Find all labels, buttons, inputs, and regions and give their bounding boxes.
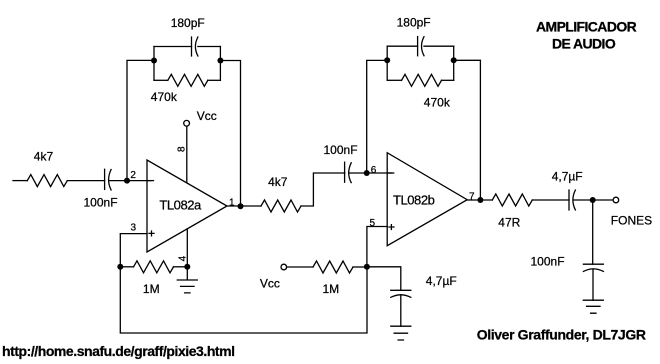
resistor 470k (second feedback) <box>402 74 442 86</box>
wire bypass capacitor to ground <box>400 295 402 326</box>
svg-text:470k: 470k <box>151 90 178 104</box>
node output 2 junction <box>477 197 483 203</box>
wire feedback bottom branch left <box>154 79 168 81</box>
wire capacitor to pin 6 <box>349 172 392 174</box>
node feedback 2 right junction <box>451 57 457 63</box>
capacitor 100nF (output filter) <box>583 264 603 271</box>
svg-text:1M: 1M <box>323 282 340 296</box>
wire 47R to capacitor <box>532 199 569 201</box>
wire pin6 node up to feedback 2 <box>367 60 388 173</box>
wire feedback 2 to output node <box>454 60 481 200</box>
wire feedback 2 top branch <box>387 45 454 47</box>
node pin 2 junction <box>124 178 130 184</box>
svg-text:http://home.snafu.de/graff/pix: http://home.snafu.de/graff/pixie3.html <box>2 343 235 359</box>
ground (bias bypass) <box>391 326 411 340</box>
wire feedback 2 bottom branch right <box>442 79 454 81</box>
svg-text:4,7µF: 4,7µF <box>426 274 457 288</box>
svg-text:7: 7 <box>469 192 475 203</box>
svg-text:DE AUDIO: DE AUDIO <box>552 36 616 52</box>
wire bias node to 1M <box>120 266 133 268</box>
op-amp U1a TL082a <box>147 160 227 252</box>
wire capacitor to pin 2 <box>109 180 151 182</box>
svg-text:47R: 47R <box>498 216 520 230</box>
wire bias loop bottom <box>120 267 367 333</box>
wire Vcc to 1M <box>287 266 313 268</box>
wire feedback top branch <box>154 46 220 48</box>
svg-text:100nF: 100nF <box>84 195 118 209</box>
capacitor 100nF (interstage) <box>345 162 352 182</box>
node FONES junction <box>590 197 596 203</box>
svg-text:6: 6 <box>371 165 377 176</box>
node bias left junction <box>117 264 123 270</box>
svg-text:Vcc: Vcc <box>260 276 280 290</box>
wire output pin 7 <box>467 199 492 201</box>
svg-text:2: 2 <box>130 170 136 181</box>
svg-text:180pF: 180pF <box>171 16 205 30</box>
svg-text:AMPLIFICADOR: AMPLIFICADOR <box>536 19 637 35</box>
node pin 6 junction <box>364 170 370 176</box>
svg-text:TL082a: TL082a <box>159 197 202 212</box>
op-amp U1b TL082b <box>387 153 467 246</box>
svg-text:4: 4 <box>178 255 189 261</box>
plus sign pin 5 <box>389 225 394 230</box>
node feedback left junction <box>151 58 157 64</box>
wire pin 8 <box>186 126 188 183</box>
svg-text:5: 5 <box>370 218 376 229</box>
minus sign pin 2 <box>148 180 154 182</box>
wire capacitor to FONES terminal <box>573 199 613 201</box>
svg-text:8: 8 <box>177 146 188 152</box>
node feedback 2 left junction <box>384 57 390 63</box>
svg-text:FONES: FONES <box>611 214 652 228</box>
resistor 470k (first feedback) <box>168 74 208 86</box>
svg-text:4k7: 4k7 <box>34 150 54 164</box>
wire bias node to bypass capacitor <box>367 267 401 291</box>
resistor 4k7 (interstage) <box>261 200 301 212</box>
wire 1M to ground node <box>174 266 188 268</box>
wire feedback box left vertical <box>153 47 155 81</box>
wire pin 3 <box>120 234 147 267</box>
svg-text:Oliver Graffunder, DL7JGR: Oliver Graffunder, DL7JGR <box>477 327 646 343</box>
wire input stub <box>13 180 27 182</box>
svg-text:Vcc: Vcc <box>197 109 217 123</box>
wire feedback box right vertical <box>219 47 221 81</box>
svg-text:TL082b: TL082b <box>393 193 435 208</box>
svg-text:4k7: 4k7 <box>268 175 288 189</box>
FONES terminal <box>613 197 619 203</box>
wire pin 5 <box>367 227 387 267</box>
svg-text:3: 3 <box>131 223 137 234</box>
svg-text:100nF: 100nF <box>324 143 358 157</box>
minus sign pin 6 <box>388 172 394 174</box>
wire feedback bottom branch right <box>208 79 221 81</box>
svg-text:1M: 1M <box>143 282 160 296</box>
svg-text:470k: 470k <box>424 95 451 109</box>
wire feedback 2 bottom branch left <box>387 79 401 81</box>
node ground junction <box>184 264 190 270</box>
wire feedback 2 box left vertical <box>386 46 388 80</box>
node bias right junction <box>364 264 370 270</box>
svg-text:100nF: 100nF <box>531 255 565 269</box>
capacitor 4,7uF (bias bypass) <box>391 290 411 297</box>
plus sign pin 3 <box>149 231 154 236</box>
capacitor 180pF (first feedback) <box>192 37 198 56</box>
capacitor 180pF (second feedback) <box>418 37 424 56</box>
Vcc terminal pin 8 <box>184 120 190 126</box>
svg-text:180pF: 180pF <box>397 16 431 30</box>
resistor 4k7 (input) <box>27 175 67 187</box>
capacitor 100nF (input coupling) <box>105 169 112 190</box>
Vcc terminal second stage <box>281 264 287 270</box>
wire feedback 2 box right vertical <box>453 46 455 80</box>
resistor 1M (second bias) <box>313 261 353 273</box>
wire output node down to 100nF <box>592 200 594 264</box>
wire input resistor to capacitor <box>67 180 104 182</box>
wire feedback to output node <box>220 61 240 207</box>
svg-text:1: 1 <box>229 198 235 209</box>
node output 1 junction <box>238 203 244 209</box>
wire 1M to bias node <box>353 266 367 268</box>
wire pin 4 <box>186 229 188 267</box>
resistor 1M (first bias) <box>134 261 174 273</box>
wire 100nF to ground <box>592 269 594 300</box>
svg-text:4,7µF: 4,7µF <box>552 170 583 184</box>
node feedback right junction <box>217 58 223 64</box>
ground (first op-amp) <box>177 267 197 293</box>
capacitor 4,7uF (output coupling) <box>569 190 575 210</box>
wire node pin2 up to feedback <box>127 60 154 180</box>
wire resistor to capacitor riser <box>301 173 345 206</box>
ground (output filter) <box>583 300 603 313</box>
wire output pin 1 <box>227 205 261 207</box>
resistor 47R (output) <box>492 194 532 206</box>
